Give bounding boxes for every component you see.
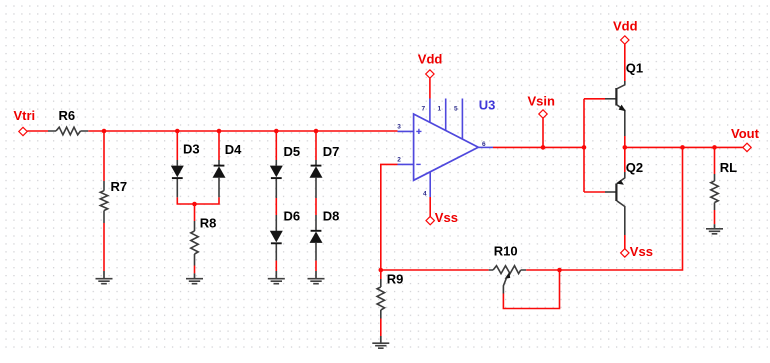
transistor Q1 — [605, 61, 643, 136]
svg-text:R9: R9 — [387, 272, 404, 287]
wire D5 to D6 — [275, 198, 277, 215]
resistor R8 — [191, 216, 217, 266]
wire op-amp Vss — [429, 197, 431, 216]
node R7 tap — [102, 129, 107, 134]
svg-text:4: 4 — [423, 191, 427, 198]
terminal Vtri — [14, 108, 36, 136]
wire D7 branch — [315, 131, 317, 160]
wire R8 to ground — [194, 266, 196, 274]
svg-text:1: 1 — [438, 106, 442, 113]
svg-text:D8: D8 — [323, 209, 340, 224]
transistor Q2 — [605, 160, 643, 235]
svg-text:3: 3 — [397, 124, 401, 131]
node feedback tap — [680, 145, 685, 150]
terminal Vdd (Q1) — [613, 19, 638, 45]
wire feedback left segment — [381, 269, 489, 271]
wire op-amp pin 2 to feedback node — [381, 164, 398, 270]
ground (R8) — [186, 273, 203, 283]
wire Q2 emitter — [624, 147, 626, 172]
svg-text:Vsin: Vsin — [528, 94, 556, 109]
wire D7 to D8 — [315, 198, 317, 215]
wire Q1 base — [584, 98, 605, 100]
svg-text:Vss: Vss — [630, 244, 653, 259]
wire Q2 base — [584, 191, 605, 193]
wire Vsin stub — [542, 118, 544, 147]
node D7 tap — [314, 129, 319, 134]
svg-text:R6: R6 — [59, 108, 76, 123]
wire R9 to ground — [380, 319, 382, 337]
ground (R7) — [96, 271, 113, 284]
wire D3-D4 bottom bridge — [177, 197, 219, 204]
svg-text:RL: RL — [720, 160, 737, 175]
svg-text:D7: D7 — [323, 144, 340, 159]
wire R9 top — [380, 270, 382, 279]
wire feedback right segment — [526, 147, 682, 270]
svg-text:D4: D4 — [225, 142, 242, 157]
terminal Vss (Q2) — [621, 244, 653, 259]
svg-text:U3: U3 — [479, 97, 496, 112]
diode D4 — [213, 142, 243, 197]
ground (R9) — [372, 336, 389, 348]
wire RL top — [714, 147, 716, 174]
wire D5 branch — [275, 131, 277, 160]
diode D7 — [310, 144, 340, 198]
node D4 tap — [217, 129, 222, 134]
svg-text:Q1: Q1 — [626, 61, 643, 76]
terminal Vout — [731, 126, 760, 152]
wire Vdd to Q1 collector — [624, 44, 626, 81]
svg-text:Vdd: Vdd — [418, 52, 443, 67]
node base tie — [582, 145, 587, 150]
svg-text:Vtri: Vtri — [14, 108, 36, 123]
diode D8 — [310, 209, 340, 261]
svg-text:R10: R10 — [494, 244, 518, 259]
svg-text:Vout: Vout — [731, 126, 760, 141]
wire Q1 emitter — [624, 136, 626, 147]
svg-text:2: 2 — [397, 156, 401, 163]
terminal Vss (op-amp) — [426, 210, 458, 225]
svg-text:7: 7 — [422, 106, 426, 113]
node R10 wiper junction — [557, 268, 562, 273]
node RL tap — [712, 145, 717, 150]
wire D6 to ground — [275, 261, 277, 271]
svg-text:6: 6 — [482, 141, 486, 148]
wire R8 top — [194, 204, 196, 221]
wire Vtri to R6 — [27, 130, 48, 132]
potentiometer R10 — [489, 244, 527, 294]
svg-text:Q2: Q2 — [626, 160, 643, 175]
ground (D6) — [268, 271, 285, 284]
wire Q2 collector to Vss — [624, 235, 626, 249]
terminal Vsin — [528, 94, 556, 119]
node D3 tap — [175, 129, 180, 134]
wire R6 to op-amp pin 3 — [88, 130, 397, 132]
wire D8 to ground — [315, 261, 317, 271]
svg-text:Vss: Vss — [435, 210, 458, 225]
wire RL to ground — [714, 210, 716, 224]
node Vsin tap — [541, 145, 546, 150]
wire op-amp output — [493, 146, 584, 148]
op-amp U3 — [397, 97, 495, 197]
svg-text:R8: R8 — [200, 216, 217, 231]
wire R7 to ground — [103, 223, 105, 271]
svg-text:R7: R7 — [111, 179, 128, 194]
svg-text:5: 5 — [454, 106, 458, 113]
diode D3 — [171, 142, 200, 198]
resistor RL — [711, 160, 737, 210]
node R9 / feedback — [379, 268, 384, 273]
node D5 tap — [274, 129, 279, 134]
diode D6 — [270, 209, 300, 261]
svg-text:D6: D6 — [284, 209, 301, 224]
wire op-amp Vdd — [429, 78, 431, 98]
wire D4 branch — [218, 131, 220, 160]
svg-text:Vdd: Vdd — [613, 19, 638, 34]
diode D5 — [270, 144, 300, 198]
svg-text:D3: D3 — [183, 142, 200, 157]
wire R10 wiper loop — [503, 270, 559, 309]
resistor R9 — [377, 272, 403, 319]
wire D3 branch — [176, 131, 178, 160]
ground (RL) — [706, 224, 723, 234]
wire R7 branch — [103, 131, 105, 181]
terminal Vdd (op-amp) — [418, 52, 443, 79]
resistor R7 — [100, 179, 127, 223]
resistor R6 — [48, 108, 88, 135]
node emitter tie / output — [623, 145, 628, 150]
svg-text:D5: D5 — [284, 144, 301, 159]
wire output rail — [625, 146, 743, 148]
node R8 tap — [192, 202, 197, 207]
ground (D8) — [308, 271, 325, 284]
wire base rail — [583, 99, 585, 192]
